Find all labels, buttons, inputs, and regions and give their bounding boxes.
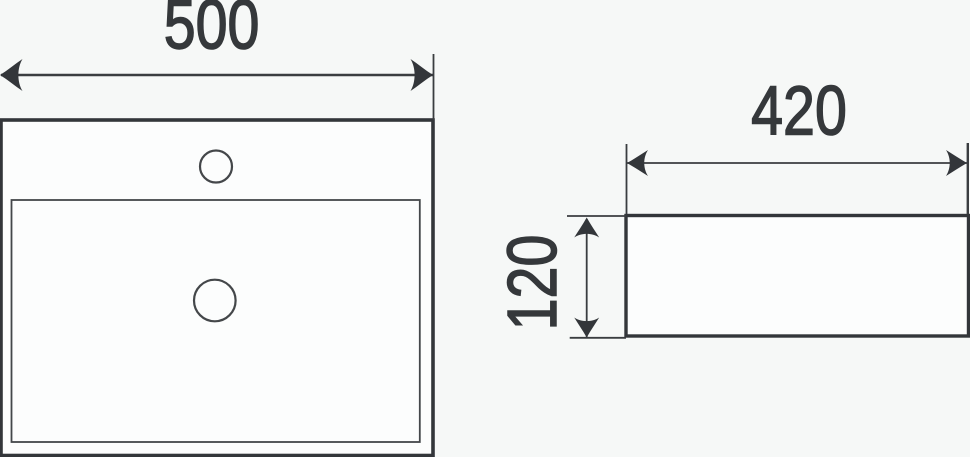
- faucet hole: [200, 151, 232, 183]
- extension line right of 420 dimension: [967, 143, 969, 214]
- svg-text:500: 500: [164, 0, 260, 64]
- extension line right of 500 dimension: [433, 54, 435, 120]
- arrowhead bottom of 120 dimension: [574, 318, 599, 338]
- basin top view outer body: [1, 120, 433, 456]
- drain hole: [194, 280, 236, 322]
- arrowhead left of 420 dimension: [627, 150, 648, 176]
- basin top view inner bowl rim: [12, 200, 420, 442]
- svg-text:420: 420: [751, 71, 847, 150]
- arrowhead right of 420 dimension: [946, 150, 967, 176]
- svg-text:120: 120: [493, 235, 572, 331]
- extension line top of 120 dimension: [567, 215, 626, 217]
- arrowhead right of 500 dimension: [411, 59, 434, 91]
- width dimension line 420: [627, 162, 967, 164]
- height dimension line 120: [586, 219, 588, 337]
- arrowhead left of 500 dimension: [0, 59, 23, 91]
- basin side view body: [626, 216, 969, 337]
- extension line left of 420 dimension: [626, 144, 628, 214]
- arrowhead top of 120 dimension: [574, 218, 599, 238]
- extension line bottom of 120 dimension: [570, 337, 626, 339]
- width dimension line 500: [1, 74, 433, 76]
